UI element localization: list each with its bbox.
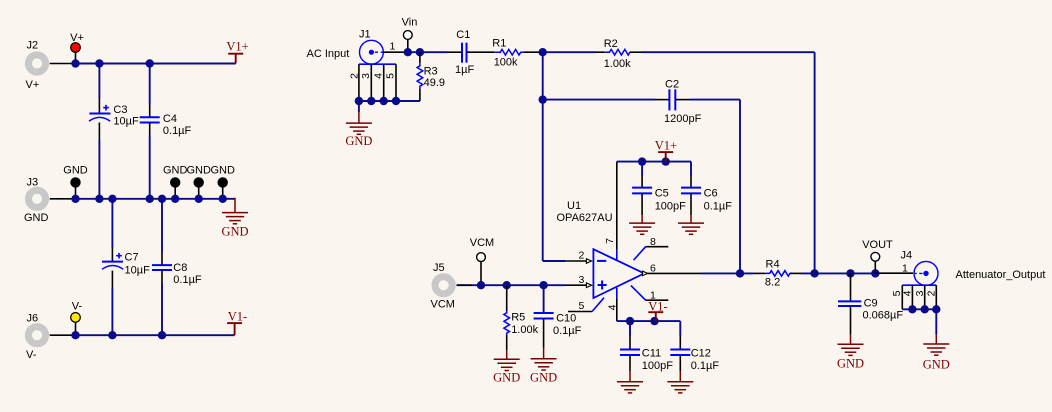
power port V1+ opamp: [655, 139, 677, 162]
svg-text:VCM: VCM: [431, 299, 455, 311]
ground below C5: [629, 215, 655, 234]
svg-text:4: 4: [606, 304, 618, 310]
svg-text:49.9: 49.9: [424, 77, 445, 89]
wire V1+ rail: [617, 161, 691, 163]
svg-text:4: 4: [902, 290, 914, 296]
svg-text:Vin: Vin: [402, 17, 418, 29]
svg-text:V1-: V1-: [648, 300, 667, 314]
wire feedback vertical: [814, 52, 816, 273]
wire C7 top: [111, 199, 113, 248]
svg-text:0.1µF: 0.1µF: [553, 325, 582, 337]
node V+ pin (red): [70, 32, 84, 64]
resistor R2: [604, 38, 633, 70]
capacitor C11: [620, 321, 673, 372]
svg-text:GND: GND: [221, 224, 248, 238]
pin J4.1: [877, 262, 913, 274]
pin U1.3: [457, 274, 592, 288]
svg-text:VCM: VCM: [470, 237, 494, 249]
connector J5: [431, 262, 455, 311]
svg-text:7: 7: [604, 238, 616, 244]
svg-text:R3: R3: [424, 66, 438, 78]
svg-text:100k: 100k: [494, 57, 518, 69]
svg-text:C9: C9: [864, 298, 878, 310]
ground below C10: [530, 348, 557, 385]
wire C3 top: [98, 64, 100, 99]
wire C1 to R1: [467, 51, 495, 53]
svg-text:J2: J2: [27, 40, 39, 52]
svg-text:5: 5: [579, 300, 585, 312]
wire C3 bottom: [98, 123, 100, 141]
svg-text:1.00k: 1.00k: [604, 58, 631, 70]
ground below C12: [667, 371, 693, 393]
svg-text:3: 3: [579, 274, 585, 286]
capacitor C9: [838, 273, 903, 334]
pin J3.1: [50, 198, 76, 200]
svg-text:C10: C10: [556, 313, 576, 325]
pin J2.1: [50, 63, 76, 65]
svg-text:V1-: V1-: [228, 310, 247, 324]
junction: [146, 59, 154, 67]
resistor R1: [492, 38, 523, 69]
node GND pin black: [63, 165, 88, 199]
svg-text:5: 5: [385, 73, 397, 79]
svg-text:VOUT: VOUT: [862, 239, 893, 251]
svg-text:V+: V+: [26, 79, 40, 91]
svg-text:V-: V-: [72, 301, 83, 313]
svg-text:GND: GND: [530, 370, 557, 384]
svg-text:GND: GND: [63, 165, 88, 177]
svg-text:J4: J4: [901, 250, 913, 262]
svg-text:GND: GND: [163, 165, 188, 177]
wire R4 to J4: [801, 272, 877, 274]
pin J6.1: [50, 334, 76, 336]
svg-text:0.1µF: 0.1µF: [704, 201, 733, 213]
capacitor C7: [102, 252, 150, 277]
svg-text:V1+: V1+: [655, 139, 677, 153]
ground below J1: [345, 101, 372, 148]
svg-text:0.1µF: 0.1µF: [173, 274, 202, 286]
svg-text:C12: C12: [691, 348, 711, 360]
wire C8 bottom: [161, 270, 163, 283]
svg-text:GND: GND: [186, 165, 211, 177]
wire J1 gnd bus: [359, 100, 420, 102]
capacitor C3: [89, 104, 139, 128]
svg-text:GND: GND: [210, 165, 235, 177]
ground below C6: [678, 215, 704, 234]
pin U1.4: [606, 288, 618, 321]
wire R2 to feedback corner: [630, 51, 642, 53]
pins J4.2-5: [891, 285, 938, 309]
resistor R5: [504, 285, 539, 350]
wire R1 to node: [524, 51, 543, 53]
op-amp U1: [557, 200, 645, 298]
ground below J4: [923, 335, 950, 372]
node Vin: [402, 17, 418, 53]
svg-text:OPA627AU: OPA627AU: [557, 212, 613, 224]
junctions V- rail: [71, 331, 79, 339]
capacitor C2: [664, 79, 702, 126]
svg-text:2: 2: [926, 290, 938, 296]
wire Vin to C1: [408, 51, 447, 53]
svg-text:U1: U1: [567, 200, 581, 212]
svg-text:2: 2: [348, 73, 360, 79]
pin U1.6 arrow: [643, 263, 656, 276]
wire node to R2: [543, 51, 595, 53]
svg-text:V1+: V1+: [226, 40, 248, 54]
svg-text:J5: J5: [433, 262, 445, 274]
junction: [95, 59, 103, 67]
node GND pin black 2: [163, 165, 188, 199]
svg-text:GND: GND: [345, 134, 372, 148]
svg-text:100pF: 100pF: [642, 360, 673, 372]
connector J1 (BNC): [359, 29, 396, 65]
pins J1.2-5: [348, 64, 396, 101]
svg-text:C3: C3: [113, 104, 127, 116]
wire V+ rail: [76, 63, 236, 65]
wire J4 gnd bus: [902, 308, 936, 310]
svg-text:C1: C1: [456, 29, 470, 41]
node V- pin (yellow): [71, 301, 83, 336]
svg-text:V+: V+: [70, 32, 84, 44]
wire C8 top: [161, 199, 163, 252]
connector J4 (BNC): [901, 250, 939, 286]
svg-text:1.00k: 1.00k: [511, 324, 538, 336]
wire C2 row left: [543, 99, 655, 101]
svg-text:1200pF: 1200pF: [664, 113, 702, 125]
node VCM terminal: [470, 237, 494, 285]
pin J1.1: [383, 41, 407, 53]
svg-text:C7: C7: [125, 252, 139, 264]
resistor R3: [417, 52, 445, 101]
svg-text:R1: R1: [492, 38, 506, 50]
capacitor C5: [632, 162, 686, 216]
resistor R4: [753, 259, 801, 289]
svg-text:8.2: 8.2: [765, 277, 780, 289]
svg-text:Attenuator_Output: Attenuator_Output: [956, 269, 1046, 281]
capacitor C10: [534, 285, 582, 347]
junction: [71, 59, 79, 67]
svg-text:C5: C5: [655, 188, 669, 200]
capacitor C8: [152, 262, 202, 286]
svg-text:GND: GND: [837, 357, 864, 371]
svg-text:C6: C6: [704, 188, 718, 200]
wire GND rail: [76, 198, 236, 200]
wire node down: [542, 52, 544, 261]
connector J2: [26, 40, 46, 92]
svg-text:1µF: 1µF: [455, 64, 474, 76]
svg-text:0.1µF: 0.1µF: [691, 360, 720, 372]
svg-text:J6: J6: [27, 313, 39, 325]
svg-text:C4: C4: [163, 113, 177, 125]
svg-text:8: 8: [650, 236, 656, 248]
ground below R5: [493, 350, 520, 384]
pin U1.1: [631, 286, 668, 302]
svg-text:AC Input: AC Input: [307, 48, 350, 60]
wire output row: [648, 272, 702, 274]
svg-text:0.1µF: 0.1µF: [163, 125, 192, 137]
wire C7 bottom: [111, 271, 113, 288]
pin J5.1: [457, 284, 472, 286]
svg-text:1: 1: [390, 41, 396, 53]
node GND pin black 4: [210, 165, 235, 199]
junctions GND rail: [71, 195, 79, 203]
ground below C11: [617, 371, 643, 393]
svg-text:C2: C2: [665, 79, 679, 91]
wire J4 to ground: [935, 309, 937, 334]
wire C4 top: [149, 64, 151, 106]
svg-text:R4: R4: [766, 259, 780, 271]
svg-text:GND: GND: [24, 212, 49, 224]
svg-text:1: 1: [902, 262, 908, 274]
svg-text:C8: C8: [173, 262, 187, 274]
connector J3: [24, 177, 49, 225]
wire C2 row right: [675, 99, 690, 101]
svg-text:J1: J1: [359, 29, 371, 41]
svg-text:R2: R2: [604, 38, 618, 50]
pin U1.8: [634, 236, 669, 260]
svg-text:GND: GND: [923, 358, 950, 372]
pin U1.2 arrow: [579, 250, 592, 264]
svg-text:4: 4: [372, 73, 384, 79]
svg-text:J3: J3: [27, 177, 39, 189]
capacitor C6: [681, 162, 732, 216]
svg-text:3: 3: [360, 73, 372, 79]
svg-text:0.068µF: 0.068µF: [863, 310, 904, 322]
svg-text:10µF: 10µF: [125, 265, 151, 277]
capacitor C12: [670, 321, 719, 372]
wire pin2 horizontal: [543, 260, 565, 262]
svg-text:V-: V-: [26, 349, 37, 361]
power port V1+: [226, 40, 248, 64]
wire V- rail: [76, 334, 235, 336]
svg-text:3: 3: [914, 290, 926, 296]
capacitor C4: [140, 113, 192, 137]
node GND pin black 3: [186, 165, 211, 199]
svg-text:C11: C11: [642, 348, 661, 360]
power port V1- opamp: [648, 300, 667, 322]
svg-text:2: 2: [579, 250, 585, 262]
connector J6: [26, 313, 46, 362]
ground below C9: [837, 335, 864, 371]
capacitor C1: [455, 29, 474, 76]
svg-text:R5: R5: [511, 312, 525, 324]
junctions VCM rail: [477, 281, 485, 289]
node VOUT: [862, 239, 893, 273]
pin U1.7: [604, 162, 617, 261]
svg-text:GND: GND: [493, 370, 520, 384]
power port V1- left: [227, 310, 247, 336]
svg-text:10µF: 10µF: [113, 116, 139, 128]
pin U1.5: [568, 298, 604, 312]
svg-text:100pF: 100pF: [655, 201, 686, 213]
ground GND rail right: [221, 198, 248, 239]
wire V1- rail below opamp: [617, 320, 681, 322]
wire C4 bottom: [149, 123, 151, 136]
wire C2 to output: [739, 100, 741, 274]
